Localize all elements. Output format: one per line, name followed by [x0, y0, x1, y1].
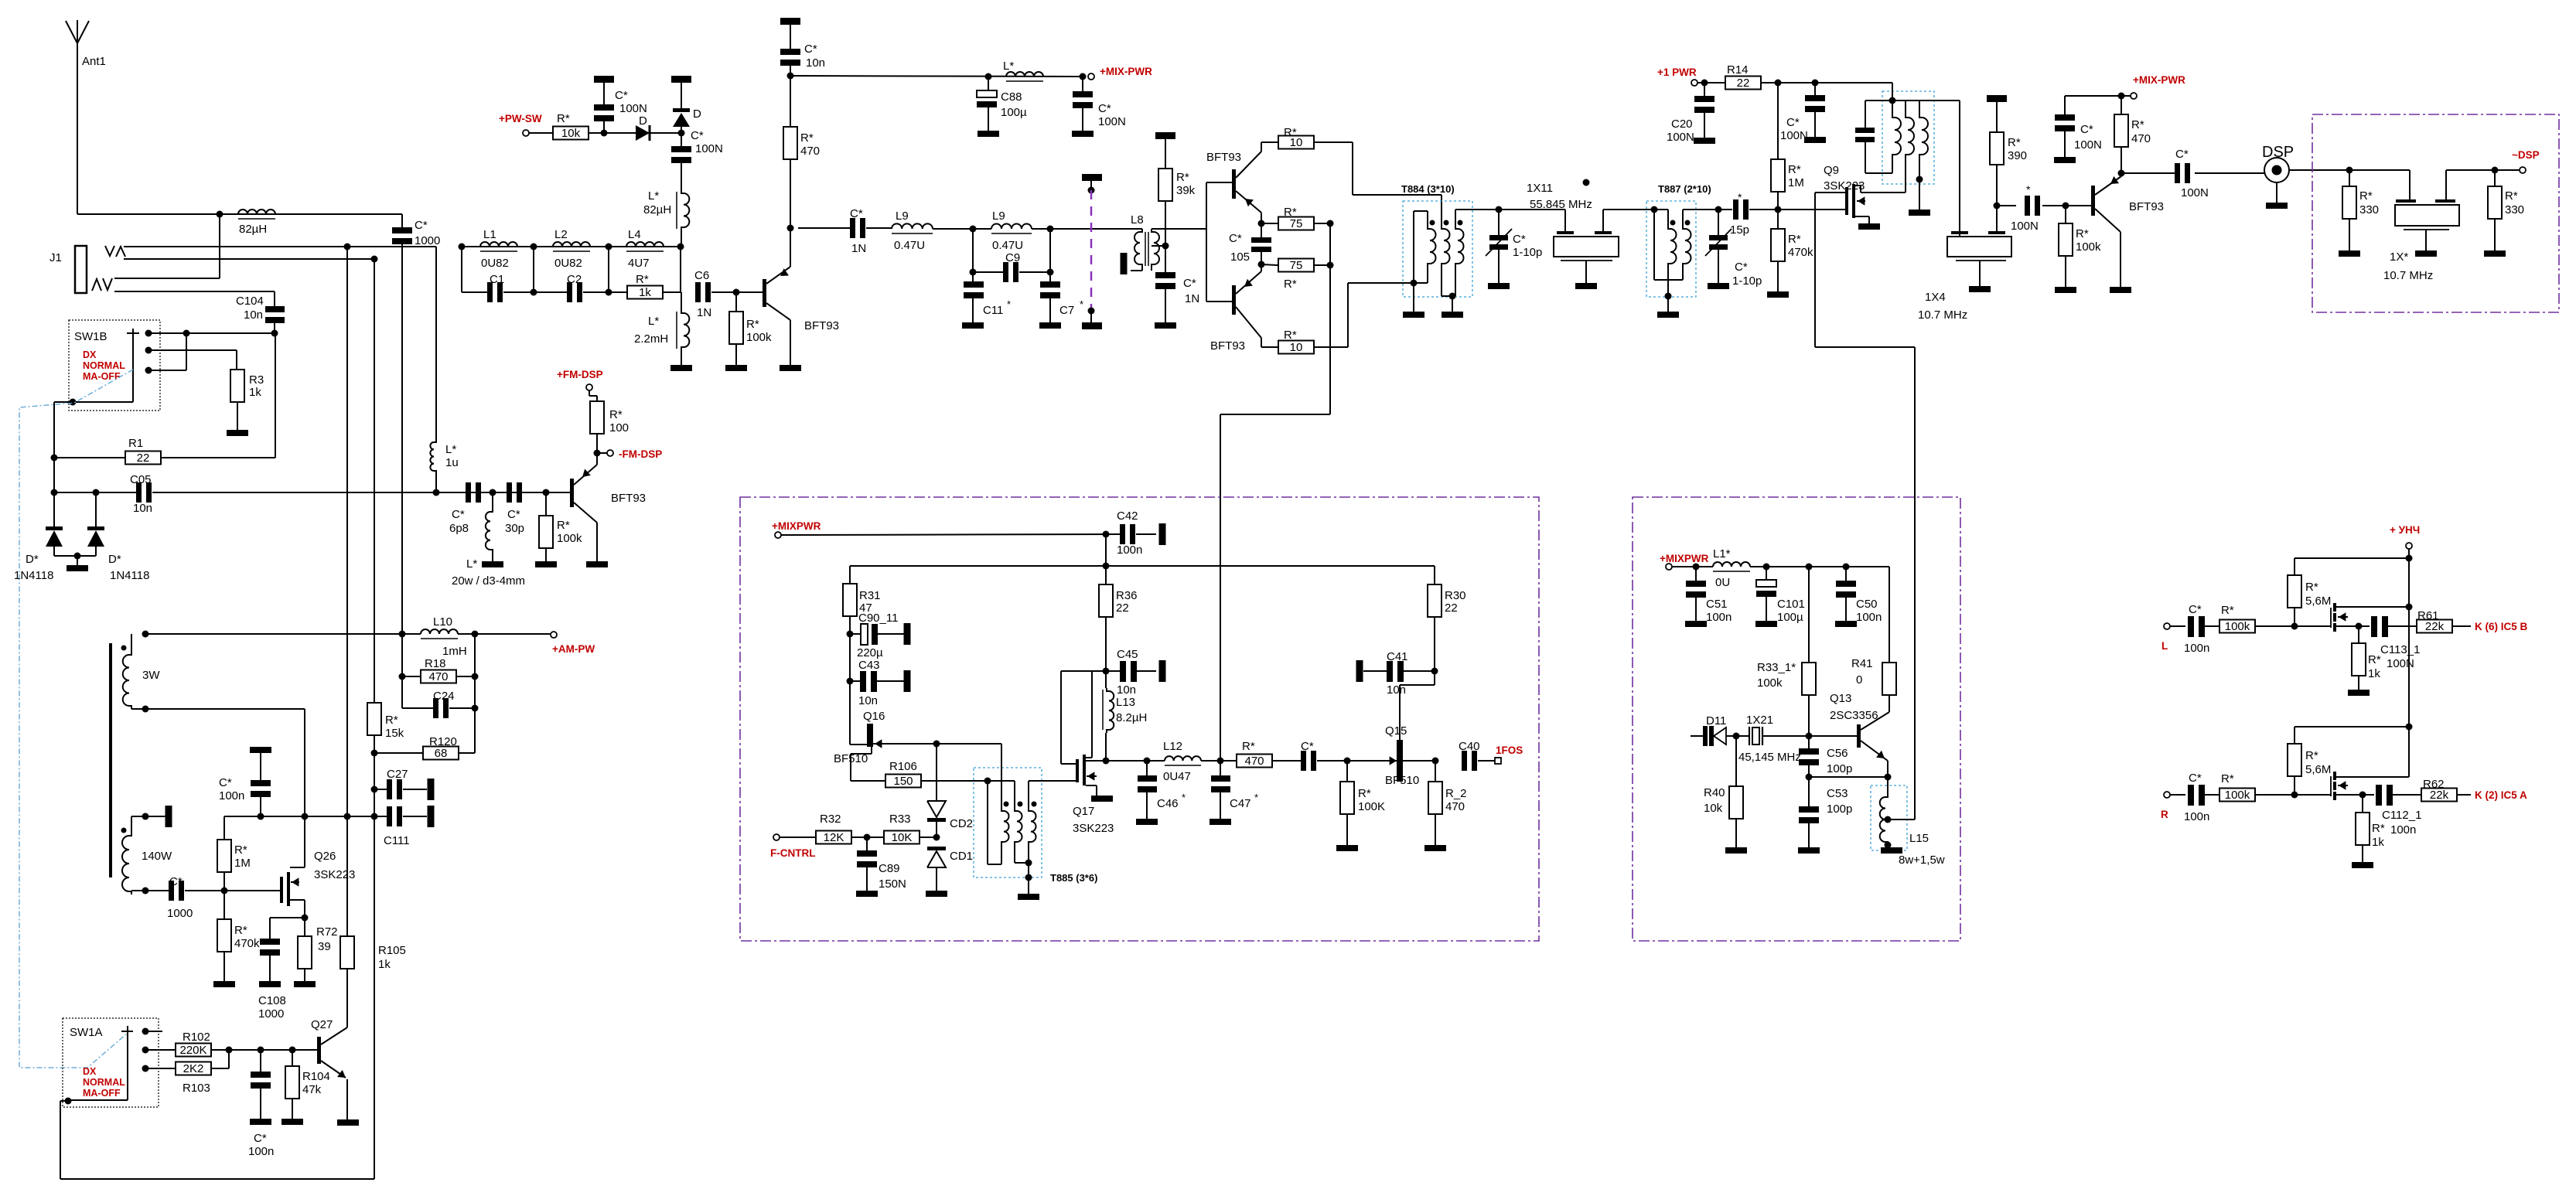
ground C*100n q27 — [250, 1119, 271, 1125]
svg-text:F-CNTRL: F-CNTRL — [770, 847, 815, 859]
resistor R* 5.6M lower — [2288, 744, 2301, 776]
svg-text:Q17: Q17 — [1073, 805, 1094, 818]
capacitor C104 10n — [265, 306, 285, 312]
capacitor C47 — [1220, 761, 1221, 775]
svg-text:R*: R* — [385, 714, 398, 727]
svg-text:100k: 100k — [746, 331, 772, 344]
svg-text:+1 PWR: +1 PWR — [1657, 66, 1697, 78]
shield screen dashed — [1082, 174, 1102, 181]
svg-text:C*: C* — [452, 508, 465, 521]
svg-text:2K2: 2K2 — [183, 1062, 204, 1075]
svg-text:C*: C* — [2080, 123, 2093, 136]
svg-text:C88: C88 — [1001, 90, 1022, 104]
capacitor C* 100N out — [2121, 172, 2175, 174]
filter 1X* 10.7MHz — [2409, 170, 2411, 199]
ground C*100N q9 — [1804, 137, 1826, 143]
svg-text:10K: 10K — [892, 831, 913, 844]
svg-text:1k: 1k — [2372, 836, 2384, 849]
svg-text:6p8: 6p8 — [449, 522, 469, 535]
svg-text:220µ: 220µ — [857, 646, 883, 659]
svg-text:0.47U: 0.47U — [992, 239, 1023, 252]
wire 3W bottom to drain — [131, 708, 305, 710]
svg-text:MA-OFF: MA-OFF — [83, 371, 121, 382]
svg-text:1M: 1M — [234, 857, 251, 870]
wire fos rail — [850, 565, 1435, 567]
ground R330 left — [2339, 250, 2360, 257]
svg-text:L1: L1 — [483, 228, 496, 241]
ground R*100K fos — [1336, 845, 1358, 851]
diode D* 1N4118 right — [95, 492, 97, 526]
svg-text:R*: R* — [2008, 136, 2021, 149]
svg-text:100n: 100n — [2184, 642, 2209, 655]
svg-text:R*: R* — [1358, 787, 1371, 800]
svg-text:L*: L* — [1003, 60, 1014, 73]
svg-text:BFT93: BFT93 — [2129, 200, 2164, 213]
svg-text:R*: R* — [746, 318, 759, 331]
svg-text:100k: 100k — [557, 532, 582, 545]
ground C1N mixer — [1155, 322, 1176, 329]
svg-text:MA-OFF: MA-OFF — [83, 1088, 121, 1099]
wire R15k down — [374, 735, 375, 1179]
wire +1PWR to transformer — [1892, 83, 1893, 101]
svg-text:R*: R* — [1242, 740, 1255, 753]
svg-text:*: * — [1254, 792, 1258, 803]
ground R1k L — [2348, 690, 2370, 696]
svg-text:3SK223: 3SK223 — [1073, 822, 1114, 835]
diode D series — [636, 125, 650, 141]
svg-text:Q27: Q27 — [311, 1018, 333, 1031]
svg-text:8w+1,5w: 8w+1,5w — [1899, 854, 1945, 867]
capacitor * 100N series — [1997, 205, 2016, 206]
svg-text:L*: L* — [466, 557, 477, 571]
svg-text:100: 100 — [609, 421, 629, 434]
resistor R* 10k — [553, 127, 589, 140]
svg-text:C*: C* — [615, 89, 628, 102]
varicap CD2 — [936, 744, 937, 801]
bar chassis diode D vert — [671, 76, 691, 83]
winding 3W — [121, 646, 127, 651]
resistor R30 22 — [1434, 566, 1435, 584]
svg-text:5,6M: 5,6M — [2305, 595, 2331, 608]
varicap CD1 — [933, 834, 940, 841]
capacitor C51 100n — [1695, 567, 1697, 581]
wire filter bottom line — [461, 247, 462, 292]
svg-text:470: 470 — [1445, 800, 1465, 813]
resistor R104 47k — [292, 1050, 293, 1066]
svg-text:100N: 100N — [2387, 657, 2414, 670]
transformer core — [109, 643, 112, 877]
connector DSP — [2264, 158, 2289, 182]
svg-text:*: * — [1738, 191, 1742, 203]
svg-text:C1: C1 — [490, 273, 504, 286]
svg-text:100K: 100K — [1358, 800, 1385, 813]
capacitor C9 — [972, 229, 974, 272]
svg-text:C*: C* — [1098, 102, 1111, 115]
svg-text:L8: L8 — [1131, 213, 1144, 227]
wire Q9 gate2 LO — [1814, 193, 1816, 347]
svg-text:1X*: 1X* — [2390, 250, 2408, 264]
resistor R* 75 lower — [1278, 259, 1314, 272]
svg-text:C*: C* — [804, 43, 817, 56]
inductor L9 first — [892, 223, 933, 229]
svg-text:C89: C89 — [879, 862, 900, 875]
svg-text:C7: C7 — [1059, 304, 1074, 317]
capacitor C112_1 100n — [2363, 794, 2374, 796]
wire vertical to R15k — [374, 259, 375, 703]
svg-text:L*: L* — [445, 443, 456, 456]
svg-text:~DSP: ~DSP — [2512, 149, 2540, 161]
wire bottom return — [60, 1178, 374, 1180]
capacitor C2 — [567, 282, 572, 302]
svg-text:C*: C* — [1513, 233, 1526, 246]
capacitor C* 100N ifamp — [2064, 96, 2066, 114]
resistor R* 5.6M upper — [2288, 575, 2301, 608]
ground CD1 — [926, 891, 947, 897]
svg-text:R103: R103 — [183, 1082, 210, 1095]
inductor L1* 0U — [1713, 562, 1750, 567]
ground DSP — [2276, 182, 2277, 203]
svg-text:1M: 1M — [1788, 176, 1804, 189]
svg-text:+MIXPWR: +MIXPWR — [772, 520, 821, 532]
switch SW1B contacts — [145, 330, 152, 337]
winding 140W — [121, 828, 127, 833]
svg-text:R40: R40 — [1704, 786, 1725, 799]
svg-text:CD1: CD1 — [950, 850, 973, 863]
wire AM top line — [145, 633, 421, 635]
capacitor C* 6p8 — [466, 482, 471, 503]
svg-text:D: D — [639, 114, 647, 128]
ground R*470k — [1767, 291, 1789, 298]
svg-text:R*: R* — [2505, 189, 2518, 203]
svg-text:R*: R* — [2305, 581, 2318, 594]
resistor R72 39 — [304, 918, 305, 936]
svg-text:100n: 100n — [248, 1145, 274, 1158]
svg-text:R*: R* — [557, 112, 570, 125]
box 45MHz purple — [1633, 497, 1960, 941]
resistor R* 470 rf1 — [783, 127, 797, 159]
svg-text:C45: C45 — [1117, 648, 1138, 661]
svg-text:C6: C6 — [694, 269, 709, 282]
capacitor C1 — [487, 282, 493, 302]
svg-text:R*: R* — [1284, 329, 1297, 342]
svg-text:100µ: 100µ — [1777, 611, 1803, 624]
svg-text:1N: 1N — [1185, 292, 1199, 305]
svg-text:100N: 100N — [2181, 186, 2209, 199]
wire filter top line — [462, 246, 681, 247]
ground 1X4 — [1969, 286, 1991, 292]
svg-text:100N: 100N — [2011, 220, 2039, 233]
svg-text:68: 68 — [435, 747, 448, 760]
svg-text:R104: R104 — [302, 1070, 330, 1083]
ground 1X11 — [1575, 283, 1597, 289]
svg-text:R102: R102 — [183, 1031, 210, 1044]
svg-text:1000: 1000 — [167, 907, 193, 920]
svg-text:1N4118: 1N4118 — [14, 569, 53, 582]
ground Q9 source — [1858, 223, 1880, 230]
ground C11 — [962, 322, 984, 329]
svg-text:150N: 150N — [879, 877, 906, 891]
ground R104 — [281, 1119, 303, 1125]
ground Q17 source — [1091, 796, 1113, 802]
resistor R* 15k — [367, 703, 381, 735]
node stray dot — [1583, 179, 1590, 186]
svg-text:R3: R3 — [249, 373, 264, 387]
svg-text:75: 75 — [1290, 217, 1303, 230]
wire IF out to 1X4 — [1959, 101, 1960, 231]
bar C45 — [1159, 660, 1166, 682]
inductor L2 0U82 — [553, 242, 590, 247]
svg-text:L4: L4 — [628, 228, 641, 241]
svg-text:L*: L* — [648, 189, 659, 203]
ground C101 — [1755, 621, 1777, 627]
wire jack ring line — [124, 258, 374, 260]
svg-text:1N: 1N — [697, 306, 711, 319]
svg-text:100N: 100N — [1098, 115, 1126, 128]
capacitor C* 100n am — [260, 753, 261, 780]
svg-text:D11: D11 — [1706, 714, 1726, 727]
terminal ~DSP — [2520, 167, 2526, 173]
resistor R* 100K fos — [1346, 761, 1348, 782]
resistor R* 1M — [1777, 83, 1779, 159]
svg-text:10k: 10k — [1704, 802, 1723, 815]
ground R*470k am — [213, 981, 235, 987]
capacitor * 15p — [1733, 199, 1738, 220]
svg-text:47k: 47k — [302, 1083, 322, 1096]
terminal +MIX-PWR — [1088, 73, 1094, 80]
inductor L12 0U47 — [1147, 760, 1165, 762]
wire antenna down and right — [77, 45, 78, 214]
ground C50 — [1835, 621, 1857, 627]
svg-text:1k: 1k — [639, 286, 651, 299]
svg-text:+PW-SW: +PW-SW — [499, 113, 542, 124]
svg-text:22: 22 — [1737, 77, 1750, 90]
svg-text:-FM-DSP: -FM-DSP — [619, 448, 662, 460]
transformer IF out box — [1882, 91, 1934, 184]
svg-text:22: 22 — [1116, 601, 1129, 615]
wire IF line 2 — [1603, 209, 1668, 210]
inductor L* 20w — [490, 489, 496, 496]
resistor R1 22 — [54, 457, 126, 458]
transformer T885 box — [974, 768, 1042, 877]
resistor R* 100 — [590, 401, 604, 434]
svg-text:0U82: 0U82 — [554, 257, 582, 270]
svg-text:R*: R* — [1788, 233, 1801, 246]
resistor R103 2K2 — [176, 1062, 211, 1075]
ground R_2 — [1424, 845, 1446, 851]
svg-text:C20: C20 — [1671, 118, 1693, 131]
svg-text:C*: C* — [1183, 277, 1196, 290]
resistor R* 470 ifamp — [2065, 95, 2121, 97]
fet L channel — [2330, 608, 2332, 628]
trimmer C* 1-10p second — [1715, 206, 1722, 213]
svg-text:0: 0 — [1856, 673, 1862, 687]
svg-text:2.2mH: 2.2mH — [634, 332, 668, 346]
svg-text:SW1B: SW1B — [74, 330, 107, 343]
capacitor C* 100N pwsw — [603, 83, 605, 104]
svg-text:10: 10 — [1290, 341, 1303, 354]
svg-text:470: 470 — [2131, 132, 2151, 145]
svg-text:C*: C* — [850, 207, 863, 220]
svg-text:22k: 22k — [2430, 789, 2449, 802]
svg-text:100n: 100n — [2390, 823, 2416, 837]
svg-text:R33: R33 — [889, 813, 911, 826]
ground L* 20w — [482, 561, 503, 567]
svg-text:100µ: 100µ — [1001, 106, 1027, 119]
svg-text:C*: C* — [1229, 232, 1242, 245]
svg-text:NORMAL: NORMAL — [83, 1077, 125, 1088]
inductor L* mixpwr — [1006, 72, 1043, 77]
ground C20 — [1694, 138, 1715, 144]
capacitor C56 100p — [1808, 736, 1810, 748]
svg-text:100N: 100N — [1667, 131, 1694, 144]
capacitor C* 1N mixer — [1155, 272, 1175, 278]
svg-text:*: * — [1007, 298, 1011, 310]
ground IF transformer — [1909, 210, 1930, 216]
resistor R* 1k L — [2358, 626, 2359, 643]
svg-text:1000: 1000 — [415, 234, 440, 247]
svg-text:470k: 470k — [1788, 246, 1813, 259]
terminal +AM-PW — [551, 632, 557, 638]
antenna Ant1 — [77, 20, 78, 45]
ground C51 — [1685, 621, 1707, 627]
inductor L* 2.2mH — [676, 312, 677, 349]
wire drain line q17 — [1103, 758, 1110, 765]
svg-text:100n: 100n — [2184, 810, 2209, 823]
transistor BFT93 fmdsp — [570, 479, 574, 507]
trimmer C* 1-10p first — [1498, 210, 1500, 235]
svg-text:BFT93: BFT93 — [1210, 339, 1245, 353]
wire R1 right vertical — [275, 333, 276, 458]
svg-text:1-10p: 1-10p — [1732, 274, 1762, 288]
svg-text:L9: L9 — [992, 210, 1005, 223]
wire lower jack ring — [114, 291, 275, 292]
bar chassis R39k — [1155, 132, 1175, 139]
svg-text:0.47U: 0.47U — [894, 239, 925, 252]
bar chassis C*100N pwsw — [594, 76, 614, 83]
svg-text:C50: C50 — [1856, 598, 1878, 611]
svg-text:22k: 22k — [2425, 620, 2445, 633]
svg-text:1FOS: 1FOS — [1496, 745, 1523, 756]
fet R channel — [2330, 776, 2332, 796]
svg-text:2SC3356: 2SC3356 — [1830, 709, 1878, 722]
svg-text:12K: 12K — [824, 831, 844, 844]
ground T887 — [1657, 312, 1679, 318]
resistor R* 330 right — [2494, 170, 2496, 186]
ground R* 100k rf1 — [725, 365, 747, 371]
switch SW1A arm — [121, 1031, 133, 1032]
svg-text:100p: 100p — [1827, 802, 1852, 816]
capacitor C43 10n — [850, 680, 860, 682]
svg-text:0U47: 0U47 — [1163, 770, 1191, 783]
svg-text:R*: R* — [1788, 163, 1801, 176]
bar C27 — [428, 779, 435, 800]
wire SW1B linkage blue — [19, 370, 133, 1068]
ground R330 right — [2484, 250, 2506, 257]
svg-text:C*: C* — [1786, 116, 1800, 129]
svg-text:K (2) IC5 A: K (2) IC5 A — [2475, 789, 2527, 801]
svg-text:8.2µH: 8.2µH — [1116, 711, 1147, 724]
svg-text:C9: C9 — [1005, 251, 1020, 264]
svg-text:R32: R32 — [820, 813, 841, 826]
bar C42 — [1159, 523, 1166, 545]
terminal L input — [2164, 623, 2170, 629]
wire filter out — [2446, 169, 2520, 171]
wire unch vertical — [2408, 607, 2410, 777]
bar chassis R390 — [1987, 95, 2007, 102]
switch SW1B box — [69, 320, 160, 411]
svg-text:100N: 100N — [695, 142, 723, 155]
svg-text:R_2: R_2 — [1445, 787, 1467, 800]
svg-text:+MIX-PWR: +MIX-PWR — [1100, 66, 1152, 77]
svg-text:DX: DX — [83, 1066, 97, 1077]
svg-text:22: 22 — [1445, 601, 1458, 615]
capacitor C* resonant q9 — [1865, 101, 1866, 128]
svg-text:100k: 100k — [1757, 676, 1783, 690]
svg-text:470: 470 — [428, 670, 448, 683]
wire DSP to filter — [2289, 169, 2410, 171]
wire unch rail — [2295, 557, 2409, 559]
resistor R* 39k — [1165, 139, 1166, 169]
svg-text:1k: 1k — [2368, 667, 2380, 680]
bar C43 — [904, 670, 911, 692]
transformer T884 box — [1403, 201, 1472, 297]
wire BFT93 collector up — [790, 228, 791, 267]
svg-text:C108: C108 — [258, 994, 286, 1007]
wire lower jack tip — [114, 278, 220, 279]
svg-text:C11: C11 — [983, 304, 1003, 317]
capacitor C113_1 100N — [2359, 625, 2370, 627]
capacitor C20 100N — [1704, 83, 1705, 96]
svg-text:82µH: 82µH — [239, 223, 267, 236]
svg-text:BFT93: BFT93 — [611, 492, 646, 505]
resistor R* 470k — [1777, 210, 1779, 229]
svg-text:15p: 15p — [1730, 223, 1749, 237]
wire left vertical — [54, 401, 73, 403]
inductor L15 — [1887, 777, 1888, 794]
svg-text:CD2: CD2 — [950, 817, 973, 830]
svg-text:C111: C111 — [384, 834, 410, 847]
bar C90_11 — [904, 623, 911, 645]
svg-text:D*: D* — [26, 553, 39, 566]
svg-text:100k: 100k — [2076, 240, 2101, 254]
svg-text:1X21: 1X21 — [1746, 714, 1773, 727]
resistor R* 390 — [1996, 102, 1998, 132]
svg-text:DX: DX — [83, 349, 97, 360]
svg-text:1-10p: 1-10p — [1513, 246, 1542, 259]
bar chassis C*10n — [780, 18, 800, 25]
svg-text:82µH: 82µH — [643, 203, 671, 216]
svg-text:R36: R36 — [1116, 589, 1138, 602]
bar C111 — [428, 806, 435, 827]
transistor BFT93 mixer lower — [1232, 285, 1236, 315]
svg-text:C2: C2 — [567, 273, 582, 286]
svg-text:0U: 0U — [1715, 576, 1730, 589]
svg-text:*: * — [1080, 298, 1083, 310]
svg-text:T884 (3*10): T884 (3*10) — [1401, 183, 1455, 195]
capacitor C* 105 — [1261, 223, 1262, 237]
svg-text:470: 470 — [800, 145, 820, 158]
connector J1 — [75, 246, 87, 293]
svg-text:1X4: 1X4 — [1925, 291, 1946, 304]
ground BFT93 rf1 — [780, 365, 801, 371]
svg-text:+AM-PW: +AM-PW — [552, 643, 595, 655]
svg-text:R*: R* — [800, 131, 814, 145]
svg-text:NORMAL: NORMAL — [83, 360, 125, 371]
chassis bar C*100n am — [250, 747, 271, 753]
svg-text:10n: 10n — [1387, 683, 1406, 697]
bar 140W top — [165, 806, 172, 827]
ground C46 — [1136, 819, 1158, 825]
